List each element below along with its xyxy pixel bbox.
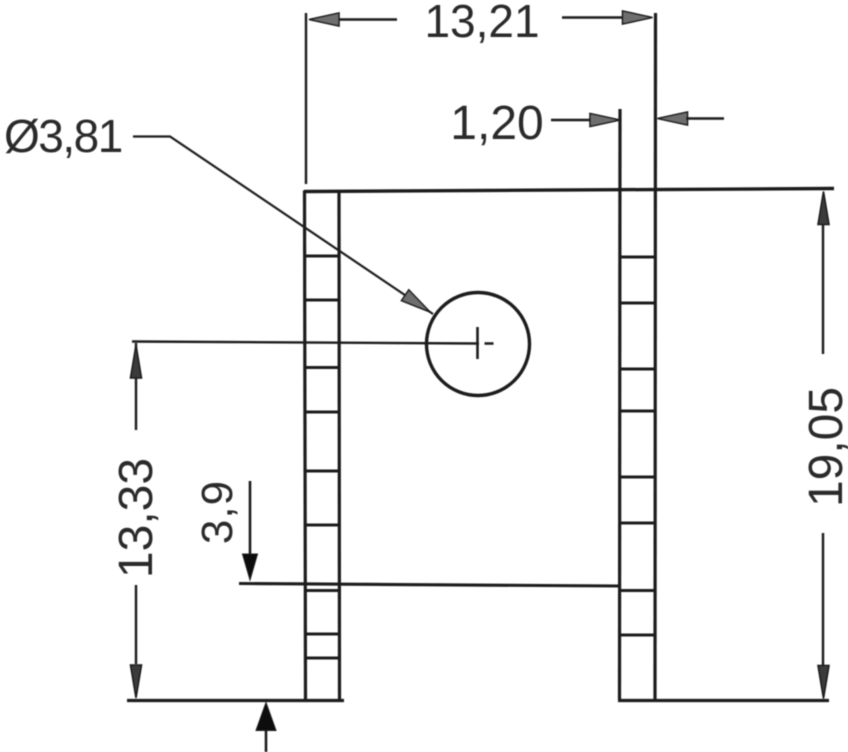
svg-text:19,05: 19,05	[800, 387, 848, 507]
arrowhead 1,20 pointing left	[658, 112, 688, 125]
right tab right edge (extends up as extension line for 13,21 / 1,20)	[653, 13, 657, 700]
svg-text:1,20: 1,20	[450, 97, 543, 150]
arrowhead 19,05 bottom pointing down	[818, 666, 829, 699]
arrowhead 1,20 pointing right	[590, 114, 620, 127]
arrowhead 3,9 solid pointing down	[243, 554, 258, 580]
dimension line 19,05 lower shaft	[822, 533, 824, 668]
bottom edge left segment (with extension to 13,33 line)	[127, 699, 344, 702]
dimension line 13,21 right part	[562, 16, 626, 18]
dimension line 1,20 right tail	[686, 117, 724, 119]
svg-text:Ø3,81: Ø3,81	[4, 110, 122, 162]
arrowhead 13,21 left	[309, 13, 339, 26]
hole center cross	[478, 327, 494, 359]
bottom edge right segment (with extension to 19,05 line)	[618, 699, 829, 702]
leader arrowhead	[401, 290, 433, 318]
left tab left edge	[305, 191, 306, 701]
svg-text:13,33: 13,33	[110, 458, 163, 578]
dimension line 13,33 upper shaft	[135, 343, 137, 430]
svg-text:13,21: 13,21	[424, 0, 539, 47]
part top edge	[304, 189, 834, 192]
right tab serration rungs	[620, 257, 655, 635]
centreline of hole (13,33 reference)	[132, 342, 479, 344]
arrowhead 13,21 right	[623, 11, 653, 24]
dimension line 19,05 upper shaft	[822, 225, 824, 354]
left tab right edge	[337, 191, 341, 701]
right tab left edge (extends up as extension line for 1,20)	[618, 109, 622, 700]
arrowhead 19,05 top pointing up	[818, 192, 829, 225]
bottom reference arrowhead solid pointing up	[256, 703, 276, 731]
left tab serration rungs	[305, 256, 339, 658]
leader line for hole diameter label	[133, 137, 433, 315]
dimension line 1,20 left part	[551, 119, 593, 121]
svg-text:3,9: 3,9	[193, 480, 242, 544]
inner shelf line (3,9 reference)	[239, 584, 620, 587]
extension line left for 13,21	[305, 13, 307, 184]
arrowhead 13,33 top pointing up	[131, 345, 142, 378]
arrowhead 13,33 bottom pointing down	[131, 665, 142, 698]
dimension line 13,21 left part	[336, 18, 397, 20]
mounting hole circle	[427, 293, 530, 396]
bottom reference arrow shaft	[265, 729, 268, 752]
dimension line 3,9 shaft	[249, 481, 252, 558]
dimension line 13,33 lower shaft	[135, 585, 137, 664]
